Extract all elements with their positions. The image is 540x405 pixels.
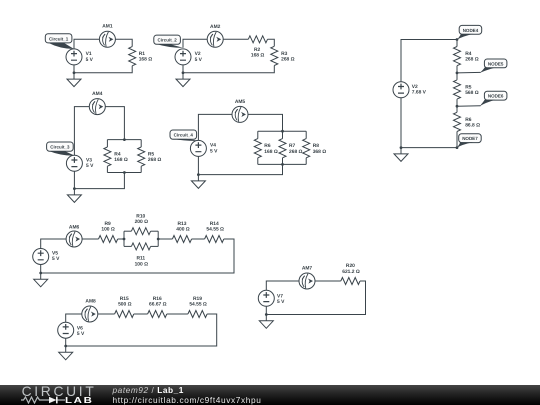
ammeter AM1 — [99, 31, 115, 47]
svg-text:168 Ω: 168 Ω — [251, 52, 265, 58]
junction top rail circuit 4 — [281, 130, 284, 133]
wire R4 bottom stub — [106, 166, 108, 172]
resistor R11 — [131, 243, 150, 250]
wire V7 top to AM7 — [266, 281, 299, 290]
junction top rail circuit 3 — [123, 138, 126, 141]
resistor R5 ladder — [454, 80, 461, 99]
svg-text:R15: R15 — [120, 296, 129, 302]
voltage source V7 — [258, 290, 274, 306]
wire R5 top stub — [140, 140, 142, 147]
svg-text:5 V: 5 V — [86, 163, 94, 169]
svg-text:R16: R16 — [153, 296, 162, 302]
voltage source V5 — [33, 249, 49, 265]
svg-text:NODE6: NODE6 — [488, 94, 504, 99]
svg-text:621.2 Ω: 621.2 Ω — [342, 269, 360, 275]
svg-text:R7: R7 — [289, 143, 296, 149]
svg-text:R8: R8 — [313, 143, 320, 149]
wire parallel top rail — [107, 139, 141, 141]
svg-text:AM2: AM2 — [210, 24, 221, 30]
svg-text:368 Ω: 368 Ω — [313, 149, 327, 155]
svg-text:268 Ω: 268 Ω — [148, 157, 162, 163]
svg-text:R6: R6 — [465, 117, 472, 123]
ammeter AM8 — [82, 306, 98, 322]
resistor R7 — [279, 139, 286, 158]
resistor R14 — [205, 236, 224, 243]
wire parallel bottom rail — [107, 172, 141, 174]
svg-text:NODE7: NODE7 — [462, 136, 478, 141]
resistor R13 — [172, 236, 191, 243]
node flag Circuit_3 — [47, 142, 75, 156]
svg-text:268 Ω: 268 Ω — [281, 57, 295, 63]
svg-text:Circuit_4: Circuit_4 — [174, 133, 194, 138]
wire R10 left stub — [124, 230, 131, 232]
voltage source V1 — [66, 49, 82, 65]
junction bottom rail circuit 4 — [281, 163, 284, 166]
resistor R4 ladder — [454, 47, 461, 66]
svg-text:NODE5: NODE5 — [488, 61, 504, 66]
wire R1 bottom to V1 bottom — [74, 65, 132, 73]
svg-text:7.68 V: 7.68 V — [412, 90, 427, 96]
svg-text:Circuit_1: Circuit_1 — [49, 36, 69, 41]
junction NODE6 — [456, 105, 459, 108]
resistor R5 — [138, 147, 145, 166]
wire R15 to R16 — [134, 313, 148, 315]
svg-text:54.55 Ω: 54.55 Ω — [206, 227, 224, 233]
junction NODE7 — [456, 146, 459, 149]
svg-text:V3: V3 — [86, 158, 92, 164]
wire R7 top stub — [282, 131, 284, 138]
svg-text:R3: R3 — [281, 51, 288, 57]
node flag NODE7 — [457, 134, 481, 148]
resistor R6 — [254, 139, 261, 158]
node flag Circuit_2 — [154, 35, 183, 48]
junction V7 ground node — [265, 313, 268, 316]
svg-text:568 Ω: 568 Ω — [465, 90, 479, 96]
svg-text:V7: V7 — [277, 293, 283, 299]
wire R6 top stub — [257, 131, 259, 138]
wire V2 top to AM2 — [183, 39, 207, 47]
svg-text:V6: V6 — [77, 325, 83, 331]
ground circuit 3 — [67, 189, 81, 203]
svg-text:86.8 Ω: 86.8 Ω — [465, 122, 480, 128]
junction V3 ground node — [73, 187, 76, 190]
wire R7 bottom stub — [282, 158, 284, 165]
wire R8 top stub — [305, 131, 307, 138]
ground circuit 4 — [191, 175, 205, 189]
wire AM6 to R9 — [82, 238, 98, 240]
svg-text:R1: R1 — [139, 51, 146, 57]
ammeter AM5 — [232, 106, 248, 122]
junction V5 ground node — [39, 272, 42, 275]
svg-text:500 Ω: 500 Ω — [118, 302, 132, 308]
wire parallel top rail c4 — [258, 130, 306, 132]
voltage source V6 — [58, 322, 74, 338]
svg-text:V2: V2 — [412, 84, 418, 90]
ground circuit 5 — [34, 273, 48, 287]
wire R5b to R6b — [456, 99, 458, 112]
wire parallel box left edge — [123, 231, 125, 246]
resistor R3 — [271, 46, 278, 65]
wire network to V3 bottom — [74, 171, 124, 188]
svg-text:AM1: AM1 — [102, 24, 113, 30]
svg-text:5 V: 5 V — [277, 299, 285, 305]
svg-text:R4: R4 — [114, 152, 121, 158]
junction V6 ground node — [64, 345, 67, 348]
resistor R9 — [99, 236, 118, 243]
svg-text:R10: R10 — [136, 214, 145, 220]
junction NODE4 — [456, 38, 459, 41]
svg-text:AM4: AM4 — [92, 91, 103, 97]
ammeter AM2 — [207, 31, 223, 47]
svg-text:100 Ω: 100 Ω — [101, 227, 115, 233]
svg-text:NODE4: NODE4 — [463, 28, 479, 33]
svg-text:R14: R14 — [210, 221, 219, 227]
junction parallel left — [123, 238, 126, 241]
svg-text:200 Ω: 200 Ω — [135, 219, 149, 225]
junction NODE5 — [456, 72, 459, 75]
junction bottom rail circuit 3 — [123, 171, 126, 174]
wire AM7 to R20 — [315, 280, 341, 282]
svg-text:100 Ω: 100 Ω — [135, 261, 149, 267]
svg-text:5 V: 5 V — [52, 256, 60, 262]
svg-text:R13: R13 — [178, 221, 187, 227]
wire R16 to R19 — [167, 313, 188, 315]
wire R4b top stub — [456, 40, 458, 47]
ground circuit 2 — [176, 73, 190, 87]
resistor R10 — [131, 228, 150, 235]
wire R11 right stub — [151, 245, 159, 247]
wire AM4 to parallel network — [105, 107, 124, 140]
svg-text:Circuit_3: Circuit_3 — [50, 145, 70, 150]
node flag NODE4 — [457, 25, 482, 39]
svg-text:R19: R19 — [193, 296, 202, 302]
wire node5 tap — [457, 71, 481, 74]
junction V1 ground node — [73, 71, 76, 74]
node flag Circuit_1 — [45, 34, 74, 49]
wire R3 bottom to V2 bottom — [183, 65, 274, 73]
wire R11 left stub — [124, 245, 131, 247]
svg-text:66.67 Ω: 66.67 Ω — [149, 302, 167, 308]
svg-text:V2: V2 — [195, 51, 201, 57]
svg-text:V5: V5 — [52, 251, 58, 257]
svg-text:5 V: 5 V — [195, 57, 203, 63]
ammeter AM6 — [66, 231, 82, 247]
junction V2 ground node — [182, 71, 185, 74]
voltage source V4 — [190, 140, 206, 156]
svg-text:AM7: AM7 — [302, 265, 313, 271]
svg-text:400 Ω: 400 Ω — [176, 227, 190, 233]
ammeter AM7 — [299, 273, 315, 289]
svg-text:R11: R11 — [136, 255, 145, 261]
junction V4 ground node — [197, 173, 200, 176]
svg-text:V1: V1 — [86, 51, 92, 57]
svg-text:5 V: 5 V — [210, 148, 218, 154]
wire R4b to R5b — [456, 66, 458, 80]
wire parallel box right edge — [157, 231, 159, 246]
wire V2b top rail — [401, 40, 457, 82]
wire R5 bottom stub — [140, 166, 142, 172]
resistor R2 — [248, 36, 267, 43]
wire AM8 to R15 — [98, 313, 115, 315]
ground circuit 7 — [259, 315, 273, 329]
svg-text:168 Ω: 168 Ω — [264, 149, 278, 155]
wire R6 bottom stub — [257, 158, 259, 165]
svg-text:R9: R9 — [104, 221, 111, 227]
voltage source V3 — [66, 155, 82, 171]
voltage source V2 ladder — [393, 82, 409, 98]
junction parallel right — [157, 238, 160, 241]
node flag Circuit_4 — [170, 130, 199, 141]
voltage source V2 — [175, 49, 191, 65]
wire R9 to parallel box — [118, 238, 124, 240]
svg-text:54.55 Ω: 54.55 Ω — [189, 302, 207, 308]
svg-text:168 Ω: 168 Ω — [139, 57, 153, 63]
ammeter AM4 — [89, 99, 105, 115]
wire AM5 to parallel network — [248, 114, 283, 131]
resistor R20 — [341, 278, 360, 285]
wire R6b to bottom rail — [401, 98, 457, 148]
wire parallel bottom rail c4 — [258, 163, 306, 165]
wire R4 top stub — [106, 140, 108, 147]
svg-text:R6: R6 — [264, 143, 271, 149]
wire V5 top to AM6 — [41, 239, 66, 249]
svg-text:168 Ω: 168 Ω — [114, 157, 128, 163]
svg-text:AM8: AM8 — [85, 299, 96, 305]
svg-text:268 Ω: 268 Ω — [289, 149, 303, 155]
ground circuit 6 — [59, 346, 73, 360]
svg-text:V4: V4 — [210, 143, 216, 149]
wire R20 to V7 bottom — [266, 281, 365, 315]
resistor R19 — [188, 311, 207, 318]
wire R10 right stub — [151, 230, 159, 232]
resistor R6 ladder — [454, 112, 461, 131]
wire AM2 to R2 — [223, 38, 248, 40]
wire node6 tap — [457, 105, 481, 108]
resistor R8 — [303, 139, 310, 158]
svg-text:R20: R20 — [346, 263, 355, 269]
ground ladder circuit — [394, 148, 408, 162]
resistor R15 — [115, 311, 134, 318]
wire R13 to R14 — [192, 238, 205, 240]
ground circuit 1 — [67, 73, 81, 87]
wire box to R13 — [158, 238, 172, 240]
wire V6 top to AM8 — [66, 314, 82, 322]
svg-text:R5: R5 — [148, 152, 155, 158]
svg-text:5 V: 5 V — [86, 57, 94, 63]
resistor R1 — [129, 47, 136, 66]
node flag NODE6 — [480, 91, 507, 106]
resistor R16 — [148, 311, 167, 318]
svg-text:268 Ω: 268 Ω — [465, 57, 479, 63]
resistor R4 — [104, 147, 111, 166]
svg-text:R4: R4 — [465, 51, 472, 57]
junction V2b ground node — [400, 146, 403, 149]
svg-text:Circuit_2: Circuit_2 — [157, 38, 177, 43]
wire R2 to R3 — [268, 39, 275, 46]
svg-text:R5: R5 — [465, 84, 472, 90]
svg-text:5 V: 5 V — [77, 331, 85, 337]
svg-text:R2: R2 — [254, 47, 261, 53]
wire AM1 to R1 — [115, 39, 132, 46]
svg-text:AM5: AM5 — [235, 99, 246, 105]
node flag NODE5 — [480, 59, 507, 73]
wire R19 to V6 bottom — [66, 314, 217, 346]
wire V3 top to AM4 — [74, 107, 89, 156]
wire R14 to V5 bottom — [41, 239, 234, 273]
wire V1 top to AM1 — [74, 39, 99, 49]
wire V4 top to AM5 — [198, 114, 232, 140]
svg-text:AM6: AM6 — [69, 224, 80, 230]
wire network to V4 bottom — [198, 156, 282, 174]
wire R8 bottom stub — [305, 158, 307, 165]
